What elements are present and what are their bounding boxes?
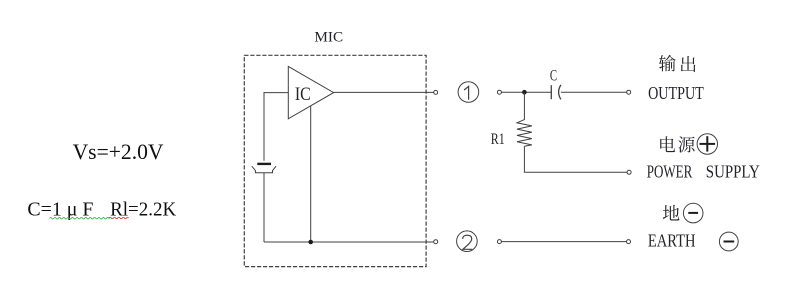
minus-in-circle symbol (chinese row) [683,203,703,223]
node 2 circled number [457,231,478,252]
label dianyuan (power) [660,136,695,152]
svg-text:IC: IC [295,85,311,105]
svg-text:EARTH: EARTH [648,230,696,250]
electret capsule element [252,164,276,173]
minus-in-circle symbol (earth terminal) [719,232,738,251]
label shuchu (output) [659,55,696,72]
wire IC output [334,91,434,93]
wire ground rail [264,241,434,243]
OUTPUT terminal circle [627,90,631,94]
label di (earth) [663,205,680,221]
POWER SUPPLY terminal circle [627,170,631,174]
MIC module dashed box [244,55,426,266]
pin circle out of box (top) [434,90,438,94]
svg-text:MIC: MIC [314,30,343,46]
svg-text:C: C [550,67,557,84]
wire IC input [264,93,288,161]
svg-text:Rl=2.2K: Rl=2.2K [110,199,177,221]
svg-text:C=1 μ F: C=1 μ F [27,199,93,221]
wire IC ground pin [310,106,312,242]
junction dot node1 [522,90,527,95]
pin circle out of box (bottom) [434,240,438,244]
wire R1 to POWER SUPPLY terminal [524,146,627,172]
svg-text:POWER: POWER [647,162,693,182]
svg-text:Vs=+2.0V: Vs=+2.0V [73,139,164,164]
pin circle node1 right [497,90,501,94]
svg-text:OUTPUT: OUTPUT [648,83,704,103]
svg-text:R1: R1 [491,131,505,148]
resistor R1 [491,92,532,148]
wire node2 to EARTH terminal [501,241,626,243]
op-amp IC [288,66,333,118]
pin circle node2 right [497,240,501,244]
wire capsule to ground rail [263,173,265,242]
spelling squiggle red [109,217,129,219]
wire node1 to capacitor [501,91,551,93]
capacitor C [550,67,561,99]
wire capacitor to OUTPUT terminal [561,91,627,93]
plus-in-circle symbol [697,134,717,154]
svg-text:SUPPLY: SUPPLY [706,162,760,182]
EARTH terminal circle [627,240,631,244]
node 1 circled number [458,82,479,103]
grammar squiggle green [50,217,110,219]
junction dot ground rail [308,240,313,245]
